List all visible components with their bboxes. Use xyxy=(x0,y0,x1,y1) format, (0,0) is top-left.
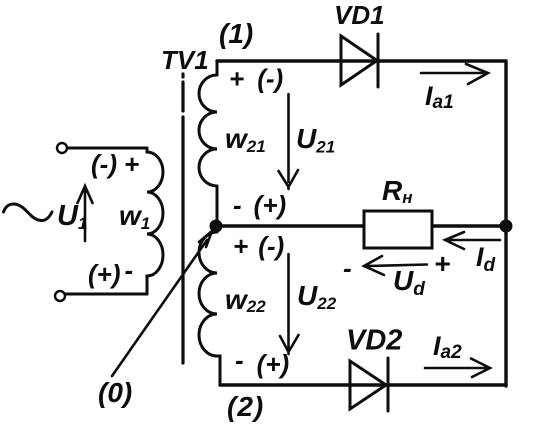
winding w22 xyxy=(199,232,217,356)
svg-text:Ia1: Ia1 xyxy=(425,81,454,113)
wire primary bottom xyxy=(65,293,147,296)
svg-text:Ia2: Ia2 xyxy=(433,331,462,363)
svg-text:Ud: Ud xyxy=(393,265,425,300)
svg-text:U1: U1 xyxy=(57,200,87,233)
svg-text:-: - xyxy=(343,253,352,283)
wire center tap to load xyxy=(222,224,364,227)
wire secondary top stub xyxy=(216,61,219,75)
node center tap (0) xyxy=(210,220,223,233)
svg-text:+: + xyxy=(434,248,450,279)
svg-text:(1): (1) xyxy=(219,18,253,49)
wire load to right rail xyxy=(432,224,506,227)
svg-text:VD1: VD1 xyxy=(334,0,385,30)
diode VD2 xyxy=(350,358,388,411)
svg-text:-(+): -(+) xyxy=(235,345,289,379)
wire w22 bottom stub xyxy=(218,356,220,385)
arrow Ia2 xyxy=(425,359,490,378)
svg-text:(+)-: (+)- xyxy=(88,255,133,289)
svg-text:w1: w1 xyxy=(119,200,150,233)
terminal top-left xyxy=(57,143,67,153)
node right rail junction xyxy=(500,220,513,233)
svg-text:Id: Id xyxy=(476,242,496,276)
svg-text:w21: w21 xyxy=(225,123,266,156)
svg-text:w22: w22 xyxy=(225,284,266,316)
svg-text:+(-): +(-) xyxy=(233,231,284,261)
winding w1 primary xyxy=(147,148,163,294)
arrow Ud xyxy=(364,256,427,275)
wire bottom rail xyxy=(220,383,506,386)
svg-text:VD2: VD2 xyxy=(346,325,402,357)
wire primary top xyxy=(67,147,147,150)
svg-text:-(+): -(+) xyxy=(233,190,286,220)
svg-text:(2): (2) xyxy=(227,391,264,422)
arrow U22 xyxy=(280,254,299,354)
terminal bottom-left xyxy=(55,291,65,301)
arrow Ia1 xyxy=(421,64,488,84)
ac source symbol xyxy=(4,204,53,221)
winding w21 xyxy=(199,75,217,186)
svg-text:U22: U22 xyxy=(297,280,337,313)
arrow U21 xyxy=(279,94,299,189)
svg-text:TV1: TV1 xyxy=(161,45,209,75)
diode VD1 xyxy=(341,34,378,87)
svg-text:Rн: Rн xyxy=(382,175,413,207)
svg-text:(-)+: (-)+ xyxy=(91,149,139,179)
transformer core TV1 xyxy=(181,74,184,363)
svg-text:U21: U21 xyxy=(296,123,335,157)
wire w21 to center tap xyxy=(216,186,219,221)
arrow U1 xyxy=(78,186,93,241)
svg-text:+(-): +(-) xyxy=(229,64,283,94)
svg-text:(0): (0) xyxy=(98,377,132,408)
arrow Id xyxy=(445,232,500,249)
resistor Rн load xyxy=(364,211,432,248)
wire right rail xyxy=(504,61,507,386)
arrow pointer to node (0) xyxy=(112,231,212,376)
wire top rail xyxy=(217,59,506,62)
